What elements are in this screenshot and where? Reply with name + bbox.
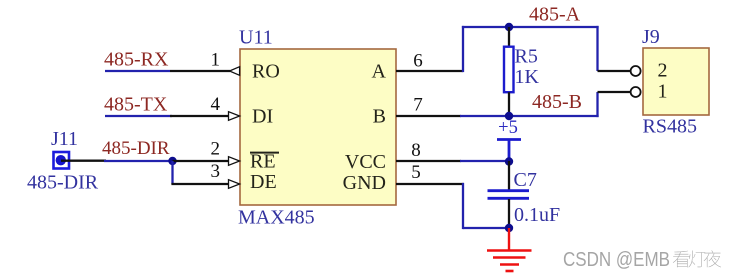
svg-text:RS485: RS485	[643, 116, 697, 138]
svg-text:485-DIR: 485-DIR	[102, 138, 170, 159]
svg-text:485-B: 485-B	[532, 91, 582, 113]
svg-text:7: 7	[413, 95, 423, 116]
svg-text:RE: RE	[250, 151, 276, 173]
svg-text:+5: +5	[498, 118, 518, 138]
wire A down to J9	[596, 26, 598, 71]
svg-text:DI: DI	[252, 106, 273, 128]
svg-text:4: 4	[211, 94, 221, 115]
pin 3 (DE)	[171, 180, 239, 189]
svg-text:A: A	[372, 61, 387, 83]
wire GND down	[462, 183, 464, 229]
svg-text:CSDN @EMB: CSDN @EMB	[563, 249, 670, 271]
IC U11 MAX485 body	[240, 49, 396, 205]
connector J11	[51, 128, 78, 169]
pin of J11	[61, 160, 106, 162]
svg-text:485-RX: 485-RX	[104, 48, 169, 70]
junction DIR node	[168, 157, 176, 165]
svg-text:MAX485: MAX485	[238, 207, 315, 229]
junction B/R5	[505, 112, 513, 120]
junction A/R5	[505, 23, 513, 31]
wire DIR down	[171, 161, 173, 184]
svg-text:B: B	[373, 106, 386, 128]
wire 485-RX	[105, 70, 170, 72]
watermark glyph ye	[704, 250, 721, 267]
svg-text:0.1uF: 0.1uF	[514, 204, 560, 226]
pin 2 (RE)	[173, 157, 240, 166]
svg-text:2: 2	[211, 139, 221, 160]
pin 8 (VCC)	[396, 160, 461, 162]
svg-text:U11: U11	[239, 27, 273, 49]
pin 4 (DI)	[170, 112, 240, 121]
pin 7 (B)	[396, 115, 461, 117]
junction VCC node	[505, 157, 513, 165]
wire 485-A rail	[462, 26, 599, 28]
wire 485-B rail	[460, 115, 599, 117]
svg-text:GND: GND	[343, 172, 386, 194]
watermark glyph kan	[673, 251, 690, 268]
pin 5 (GND)	[396, 183, 464, 185]
pin name RE (active low)	[250, 151, 279, 173]
J9 pin 1	[598, 87, 641, 97]
svg-text:6: 6	[413, 50, 423, 71]
svg-text:J11: J11	[51, 128, 78, 150]
wire VCC	[460, 160, 509, 162]
svg-text:3: 3	[211, 161, 221, 182]
resistor R5	[504, 27, 514, 116]
svg-text:485-TX: 485-TX	[104, 93, 168, 115]
svg-text:R5: R5	[515, 45, 538, 67]
svg-text:485-A: 485-A	[529, 4, 581, 26]
wire A up	[462, 26, 464, 72]
svg-text:J9: J9	[642, 26, 660, 48]
svg-text:C7: C7	[514, 169, 537, 191]
pin 1 (RO)	[170, 67, 240, 76]
svg-text:8: 8	[411, 140, 421, 161]
svg-text:2: 2	[658, 60, 668, 82]
capacitor C7	[488, 161, 530, 228]
junction GND node	[505, 224, 513, 232]
wire 485-DIR	[104, 160, 173, 162]
pin 6 (A)	[396, 70, 463, 72]
svg-text:485-DIR: 485-DIR	[27, 172, 99, 194]
svg-text:DE: DE	[250, 171, 277, 193]
watermark glyph deng	[688, 250, 705, 267]
ground	[487, 228, 532, 271]
connector J9 body	[643, 48, 709, 115]
wire GND right	[463, 227, 509, 229]
svg-text:1: 1	[211, 50, 221, 71]
svg-text:1K: 1K	[515, 66, 540, 88]
J9 pin 2	[598, 66, 641, 76]
svg-text:VCC: VCC	[345, 151, 386, 173]
wire 485-TX	[105, 115, 172, 117]
power +5	[497, 118, 521, 161]
svg-text:RO: RO	[252, 61, 280, 83]
svg-text:1: 1	[658, 81, 668, 103]
wire B up to J9	[596, 92, 598, 117]
svg-text:5: 5	[411, 162, 421, 183]
